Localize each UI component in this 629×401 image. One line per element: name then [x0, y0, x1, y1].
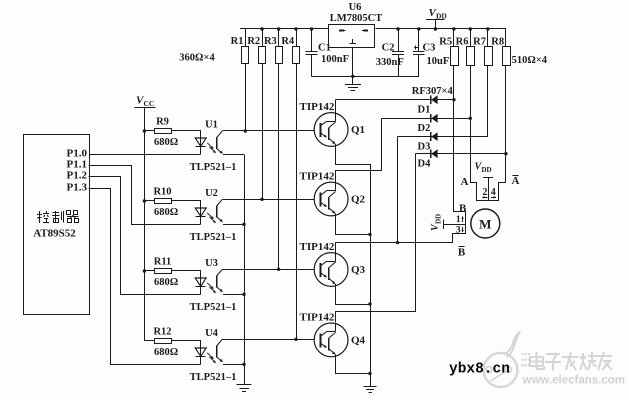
pin 1 arrow — [462, 217, 464, 222]
junction top rail / resistor — [469, 27, 472, 30]
optocoupler U1 phototransistor — [216, 137, 218, 149]
junction VDD/top rail — [434, 27, 437, 30]
capacitor C3 10uF (polarized) — [418, 29, 420, 51]
svg-text:C2: C2 — [382, 43, 395, 54]
diode D1 RF307 — [430, 95, 432, 104]
svg-text:4: 4 — [491, 187, 496, 198]
junction D1/R5 — [452, 98, 455, 101]
svg-text:TLP521–1: TLP521–1 — [190, 162, 237, 173]
wire Q2 emitter — [336, 216, 371, 235]
svg-text:3: 3 — [456, 225, 461, 235]
wire U3 collector to Q base — [222, 269, 314, 271]
svg-text:Q4: Q4 — [351, 334, 366, 346]
svg-text:R3: R3 — [264, 36, 277, 47]
resistor R10 — [144, 200, 154, 202]
transistor Q3 TIP142 — [314, 253, 348, 287]
wire P1.3 to U4 LED cathode — [89, 189, 201, 365]
wire R5 down to phase B — [453, 66, 455, 212]
resistor R6 — [470, 29, 472, 47]
svg-text:680Ω: 680Ω — [154, 277, 178, 288]
U6 output pin mark — [364, 29, 369, 31]
motor M — [471, 209, 500, 238]
wire capacitor bottom rail — [312, 76, 419, 78]
svg-text:R9: R9 — [156, 117, 169, 128]
pin 4 arrow — [491, 197, 496, 199]
svg-text:U1: U1 — [205, 120, 218, 131]
svg-text:U3: U3 — [205, 258, 218, 269]
capacitor C1 100nF — [311, 29, 313, 51]
wire R7 down to D3 — [487, 66, 489, 137]
junction C3/top rail — [417, 27, 420, 30]
svg-text:TIP142: TIP142 — [300, 101, 335, 113]
svg-text:TLP521–1: TLP521–1 — [190, 302, 237, 313]
svg-text:R2: R2 — [247, 36, 260, 47]
power VDD symbol (connector B, rotated) — [430, 214, 443, 231]
svg-text:10uF: 10uF — [427, 56, 450, 67]
svg-text:P1.3: P1.3 — [67, 181, 88, 193]
junction R4/collector wire — [294, 338, 297, 341]
optocoupler U3 TLP521-1 LED — [200, 271, 202, 294]
junction Q2 emitter/bus — [368, 233, 371, 236]
U6 gnd pin mark — [352, 39, 354, 44]
diode D4 RF307 — [430, 149, 432, 158]
svg-text:ybx8.cn: ybx8.cn — [449, 362, 510, 378]
svg-text:DD: DD — [482, 166, 492, 174]
wire U1 emitter to common ground line — [223, 154, 244, 156]
pin 2 arrow — [482, 197, 487, 199]
wire Q1 collector to D1/R5 — [335, 100, 337, 113]
voltage regulator U6 LM7805CT — [329, 25, 375, 48]
svg-text:R12: R12 — [153, 327, 171, 338]
wire U6 ground stem — [352, 47, 354, 84]
watermark 电子发烧友 (gray) — [522, 353, 524, 355]
optocoupler U4 TLP521-1 LED — [200, 341, 202, 364]
svg-text:Q1: Q1 — [351, 124, 365, 136]
junction gnd/cap rail — [351, 75, 354, 78]
transistor Q2 TIP142 — [314, 182, 348, 216]
wire P1.1 to U2 LED cathode — [89, 166, 201, 225]
svg-text:www.elecfans.com: www.elecfans.com — [522, 375, 625, 387]
optocoupler U3 light arrows — [207, 283, 213, 288]
optocoupler U4 phototransistor — [216, 345, 218, 357]
junction R2/collector wire — [260, 198, 263, 201]
svg-text:C3: C3 — [423, 43, 436, 54]
junction top rail — [310, 27, 313, 30]
resistor R3 — [278, 29, 280, 47]
svg-text:Q2: Q2 — [351, 194, 366, 206]
connector phase B / B-bar (pins 1,3) — [453, 212, 466, 243]
wire R1 down to opto collector — [245, 64, 247, 131]
resistor R1 — [245, 29, 247, 47]
wire P1.2 to U3 LED cathode — [89, 177, 201, 295]
wire P1.0 to U1 LED cathode — [89, 154, 201, 156]
junction U4 emitter — [242, 363, 245, 366]
wire U3 emitter to common ground line — [223, 294, 244, 296]
capacitor C2 330nF — [398, 29, 400, 51]
label 控制器 (controller) — [39, 211, 41, 223]
svg-text:U6: U6 — [349, 2, 362, 13]
optocoupler U3 phototransistor — [216, 275, 218, 287]
svg-text:D1: D1 — [418, 104, 431, 115]
wire D2 to R6 — [382, 118, 471, 120]
junction D4/R8 — [504, 152, 507, 155]
svg-text:R11: R11 — [154, 257, 172, 268]
watermark logo swirl (decorative) — [484, 353, 518, 387]
svg-text:DD: DD — [435, 214, 443, 224]
wire U1 collector to Q base — [222, 130, 314, 132]
svg-text:C1: C1 — [318, 43, 331, 54]
junction Vcc/R11 — [143, 269, 146, 272]
svg-text:LM7805CT: LM7805CT — [330, 13, 383, 24]
optocoupler U2 phototransistor — [216, 205, 218, 217]
U6 input pin mark — [339, 29, 344, 31]
svg-text:TIP142: TIP142 — [300, 311, 335, 323]
resistor R11 — [144, 270, 154, 272]
wire D3 to R7 — [398, 136, 488, 138]
wire D4 to R8 — [416, 153, 506, 155]
resistor R8 — [505, 29, 507, 47]
svg-text:330nF: 330nF — [376, 57, 404, 68]
svg-text:680Ω: 680Ω — [154, 137, 178, 148]
diode D3 RF307 — [430, 132, 432, 141]
svg-text:680Ω: 680Ω — [154, 207, 178, 218]
ground (opto emitters) — [237, 384, 252, 386]
junction U2 emitter — [242, 223, 245, 226]
junction top rail / resistor — [452, 27, 455, 30]
connector phase A / A-bar (pins 2,4) — [471, 183, 506, 201]
svg-text:R8: R8 — [491, 37, 504, 48]
junction U3 emitter — [242, 293, 245, 296]
wire U2 collector to Q base — [222, 199, 314, 201]
svg-text:A: A — [512, 175, 520, 187]
svg-text:R6: R6 — [456, 37, 469, 48]
svg-text:TIP142: TIP142 — [300, 241, 335, 253]
svg-text:1: 1 — [456, 215, 461, 225]
ground (U6 / filter caps) — [345, 84, 361, 86]
svg-text:680Ω: 680Ω — [154, 347, 178, 358]
transistor Q4 TIP142 — [314, 323, 348, 357]
svg-text:R1: R1 — [231, 36, 244, 47]
wire opto emitter common vertical — [244, 154, 246, 385]
svg-text:AT89S52: AT89S52 — [33, 228, 76, 240]
wire U4 emitter to common ground line — [223, 364, 244, 366]
wire R8 down to phase A-bar — [505, 66, 507, 183]
resistor R2 — [262, 29, 264, 47]
svg-text:D3: D3 — [418, 141, 431, 152]
svg-text:R7: R7 — [473, 37, 486, 48]
transistor Q1 TIP142 — [314, 113, 348, 147]
resistor R7 — [487, 29, 489, 47]
junction top rail — [277, 27, 280, 30]
junction Vcc/R10 — [143, 199, 146, 202]
svg-text:100nF: 100nF — [321, 54, 349, 65]
junction D2/R6 — [469, 117, 472, 120]
wire +V top rail (left of U6) — [240, 28, 329, 30]
svg-text:2: 2 — [483, 187, 488, 198]
svg-text:360Ω×4: 360Ω×4 — [179, 53, 215, 64]
wire R2 down to opto collector — [262, 64, 264, 199]
svg-text:TLP521–1: TLP521–1 — [190, 232, 237, 243]
svg-text:B: B — [459, 202, 467, 214]
wire Q3 collector to phase B-bar — [336, 234, 453, 253]
optocoupler U1 light arrows — [207, 143, 213, 148]
wire Q4 emitter — [336, 357, 371, 374]
wire U2 emitter to common ground line — [223, 224, 244, 226]
junction top rail / resistor — [486, 27, 489, 30]
junction R3/collector wire — [277, 268, 280, 271]
pin 3 arrow — [462, 227, 464, 232]
resistor R12 — [144, 340, 154, 342]
wire R4 down to opto collector — [296, 64, 298, 339]
optocoupler U2 TLP521-1 LED — [200, 201, 202, 224]
wire U4 collector to Q base — [222, 339, 314, 341]
svg-text:A: A — [461, 176, 469, 188]
resistor R4 — [296, 29, 298, 47]
svg-text:TIP142: TIP142 — [300, 171, 335, 183]
optocoupler U4 light arrows — [207, 353, 213, 358]
diode D2 RF307 — [430, 114, 432, 123]
svg-text:D2: D2 — [418, 123, 431, 134]
junction C2/top rail — [396, 27, 399, 30]
wire D3 riser — [397, 137, 399, 243]
svg-text:U4: U4 — [205, 328, 219, 339]
wire Q3 emitter — [336, 287, 371, 305]
svg-text:CC: CC — [144, 99, 155, 108]
wire Q2 collector riser — [336, 119, 382, 183]
optocoupler U2 light arrows — [207, 213, 213, 218]
resistor R5 — [453, 29, 455, 47]
junction Q3 emitter/bus — [368, 302, 371, 305]
controller U5 AT89S52 box — [24, 135, 90, 315]
wire Vcc stem down to R9-R12 — [144, 108, 146, 341]
svg-text:B: B — [458, 246, 466, 258]
svg-text:Q3: Q3 — [351, 264, 366, 276]
junction Vcc/R9 — [143, 129, 146, 132]
wire Q1 emitter to ground bus — [336, 147, 371, 374]
junction top rail — [260, 27, 263, 30]
svg-text:R5: R5 — [439, 37, 452, 48]
label + (C3 polarity) — [414, 47, 418, 49]
svg-text:P1.2: P1.2 — [67, 169, 88, 181]
svg-text:R10: R10 — [153, 187, 171, 198]
svg-text:510Ω×4: 510Ω×4 — [512, 55, 548, 66]
wire R6 down to phase A — [470, 66, 472, 183]
wire Q4 collector riser — [336, 154, 416, 323]
svg-text:TLP521–1: TLP521–1 — [190, 372, 237, 383]
ground (power stage) — [370, 374, 372, 387]
svg-text:R4: R4 — [281, 36, 295, 47]
svg-text:RF307×4: RF307×4 — [412, 86, 454, 97]
junction Q4 emitter/ground — [368, 372, 371, 375]
wire R3 down to opto collector — [278, 64, 280, 269]
junction D3 riser / Q3 collector — [396, 241, 399, 244]
svg-text:D4: D4 — [418, 158, 432, 169]
junction top rail — [294, 27, 297, 30]
svg-text:M: M — [479, 216, 491, 231]
junction R1/collector wire — [244, 129, 247, 132]
svg-text:U2: U2 — [205, 188, 218, 199]
wire +V top rail (right of U6) — [376, 28, 506, 30]
resistor R9 — [144, 130, 154, 132]
optocoupler U1 TLP521-1 LED — [200, 131, 202, 154]
